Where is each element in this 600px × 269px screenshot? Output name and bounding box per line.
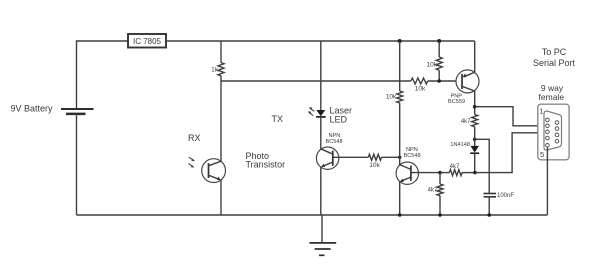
wire R3 to PNP base node: [428, 80, 462, 82]
label pin1: [539, 106, 543, 115]
label PNP BC559: [448, 94, 465, 105]
wire D2 to node: [474, 153, 476, 172]
svg-text:10k: 10k: [386, 94, 397, 101]
wire laser branch from rail: [320, 41, 322, 110]
wire RX collector: [220, 81, 222, 162]
photo arrows into Q1: [188, 157, 195, 167]
phototransistor Q1: [202, 159, 226, 183]
resistor R6 10k PNP base pullup: [427, 57, 443, 70]
wire collector line Q3: [399, 41, 401, 91]
transistor Q4 PNP BC559: [456, 70, 479, 93]
ground symbol: [310, 215, 337, 255]
label Photo Transistor: [246, 151, 286, 169]
svg-text:10k: 10k: [369, 162, 380, 169]
svg-text:To PC: To PC: [542, 47, 567, 57]
pin 5: [546, 144, 550, 148]
resistor R4 10k TX base: [368, 154, 381, 169]
svg-text:4k7: 4k7: [428, 188, 438, 194]
ground rail: [77, 214, 548, 216]
wire R5 to Q3 collector: [399, 103, 401, 165]
svg-text:4k7: 4k7: [461, 119, 471, 125]
node rail junction C1: [487, 213, 491, 217]
svg-text:NPN: NPN: [329, 133, 341, 139]
label TX: [272, 114, 284, 124]
wire to connector pin 3: [475, 133, 546, 173]
wire LED to Q2 collector: [320, 118, 322, 149]
wire tap to capacitor branch: [475, 139, 490, 193]
pin 3: [546, 130, 550, 134]
label To PC Serial Port: [533, 47, 576, 68]
wire to connector pin 2: [475, 107, 546, 126]
wire Q3 base: [411, 172, 439, 174]
svg-text:BC548: BC548: [404, 153, 421, 159]
wire pin 5 to ground rail: [546, 147, 548, 215]
wire R9 to D2: [474, 127, 476, 146]
svg-text:100nF: 100nF: [497, 193, 514, 199]
wire C1 to ground rail: [488, 197, 490, 215]
wire Q2 emitter to ground rail: [320, 167, 322, 215]
pin 4: [546, 136, 550, 140]
svg-text:female: female: [539, 92, 565, 102]
svg-text:5: 5: [540, 150, 544, 159]
resistor R7 4k7 horizontal: [440, 164, 475, 176]
node PNP base: [437, 79, 441, 83]
svg-text:RX: RX: [188, 133, 201, 143]
label RX: [188, 133, 201, 143]
svg-text:Serial Port: Serial Port: [533, 58, 576, 68]
svg-text:BC548: BC548: [326, 139, 343, 145]
resistor R9 4k7: [461, 115, 478, 127]
resistor R1 1k: [211, 63, 224, 76]
top +V rail: [166, 40, 475, 42]
node cap branch tap: [473, 138, 477, 142]
node collector tap to pin2: [473, 105, 477, 109]
wire Q1 emitter to ground rail: [220, 180, 222, 215]
svg-text:4k7: 4k7: [450, 164, 460, 170]
laser LED D1: [316, 110, 326, 117]
svg-text:1N4148: 1N4148: [450, 142, 470, 148]
wire Q2 base: [333, 156, 369, 158]
label NPN BC548 Q3: [404, 147, 421, 159]
svg-text:TX: TX: [272, 114, 284, 124]
node TX base junction: [398, 156, 401, 159]
node top rail junction B: [437, 39, 441, 43]
pin 7: [555, 127, 559, 131]
wire R4 to node: [382, 156, 400, 158]
node rail junction Q3 emitter: [398, 213, 402, 217]
transistor Q2 BC548 TX driver: [316, 147, 338, 169]
node diode output: [473, 171, 477, 175]
regulator IC 7805: [128, 34, 166, 48]
connector J1 outer body: [538, 104, 569, 160]
pin 6: [555, 121, 559, 125]
svg-text:Transistor: Transistor: [246, 160, 286, 170]
svg-text:1k: 1k: [211, 67, 219, 74]
wire battery bottom: [76, 114, 78, 215]
transistor Q3 BC548 RX amp: [396, 162, 418, 184]
connector J1 D shell: [544, 111, 562, 150]
pin 8: [555, 133, 559, 137]
capacitor C1 100nF: [484, 193, 515, 199]
diode D2 1N4148: [450, 142, 479, 153]
node top rail junction A: [398, 39, 402, 43]
wire battery top to IC7805: [77, 41, 129, 109]
battery B1 9V: [61, 109, 94, 114]
resistor R5 10k collector load: [386, 91, 403, 103]
pin 9: [555, 139, 559, 143]
node rail junction R8: [438, 213, 442, 217]
wire Q4 collector down: [474, 91, 476, 115]
node Q3 base junction: [438, 171, 442, 175]
svg-text:BC559: BC559: [448, 99, 465, 105]
wire R6 to base node: [438, 70, 440, 81]
pin 1: [546, 118, 550, 122]
wire top rail corner to Q4 emitter: [474, 41, 476, 72]
wire 1k branch from rail: [220, 41, 222, 63]
label Laser LED: [330, 105, 353, 124]
node RX signal rail: [221, 80, 411, 82]
resistor R3 10k RX signal: [411, 78, 428, 93]
pin 2: [546, 124, 550, 128]
svg-text:10k: 10k: [427, 62, 438, 69]
wire 1k to RX node: [220, 76, 222, 81]
svg-text:IC 7805: IC 7805: [133, 37, 162, 46]
wire Q3 emitter to ground rail: [399, 182, 401, 215]
light arrows from LED: [308, 107, 314, 115]
svg-text:LED: LED: [330, 115, 348, 125]
wire rail to R6: [438, 41, 440, 57]
svg-text:1: 1: [539, 106, 543, 115]
label 9V Battery: [11, 104, 54, 114]
resistor R8 4k7 to ground: [428, 173, 443, 215]
label 9 way female: [539, 83, 565, 102]
svg-text:10k: 10k: [415, 86, 426, 93]
label NPN BC548 Q2: [326, 133, 343, 145]
label pin5: [540, 150, 544, 159]
svg-text:9V Battery: 9V Battery: [11, 104, 54, 114]
